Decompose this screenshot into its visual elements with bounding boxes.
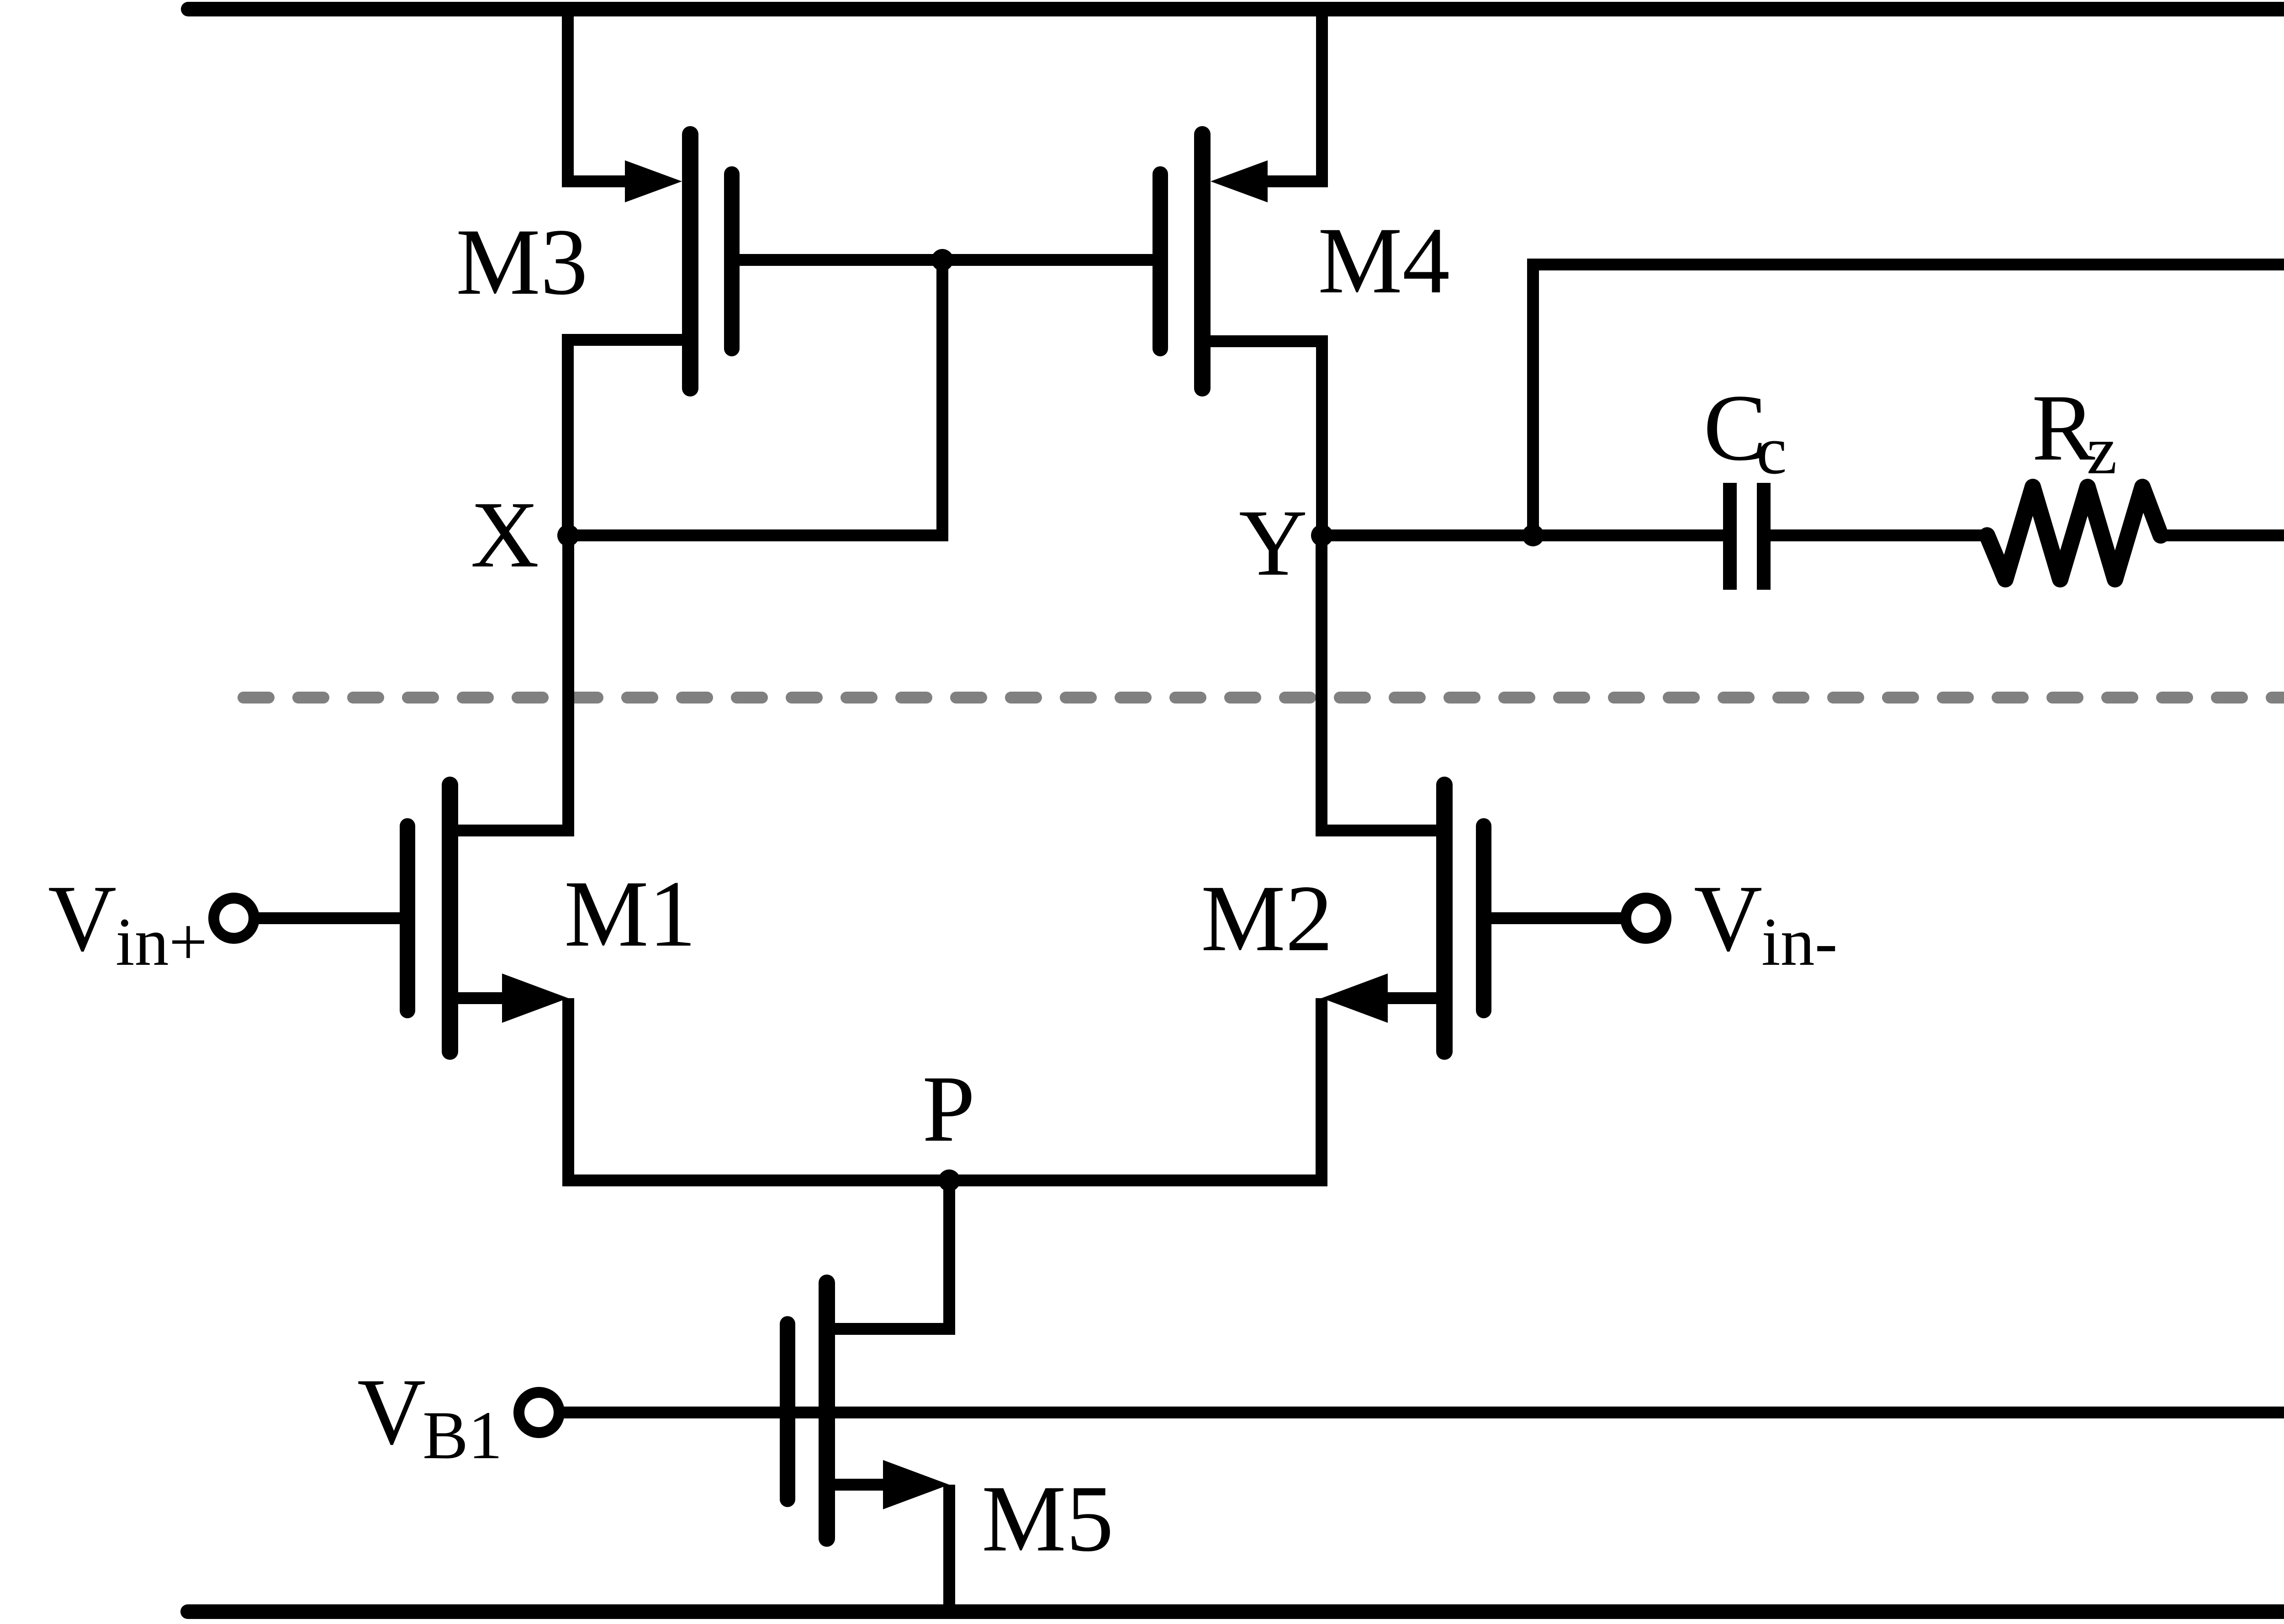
- svg-text:in+: in+: [116, 904, 207, 980]
- svg-text:V: V: [1694, 866, 1762, 971]
- svg-text:z: z: [2087, 413, 2117, 488]
- svg-text:V: V: [357, 1359, 426, 1464]
- svg-text:M1: M1: [564, 861, 696, 966]
- svg-text:c: c: [1756, 413, 1787, 488]
- svg-text:R: R: [2032, 375, 2095, 480]
- svg-text:M5: M5: [982, 1466, 1114, 1571]
- svg-text:M3: M3: [456, 209, 588, 314]
- svg-text:in-: in-: [1761, 904, 1838, 980]
- svg-text:B1: B1: [423, 1397, 502, 1473]
- svg-text:X: X: [471, 482, 539, 587]
- svg-text:P: P: [922, 1056, 975, 1161]
- svg-text:M4: M4: [1318, 208, 1450, 313]
- svg-text:Y: Y: [1239, 490, 1307, 595]
- svg-text:M2: M2: [1201, 866, 1333, 971]
- svg-text:V: V: [48, 866, 116, 971]
